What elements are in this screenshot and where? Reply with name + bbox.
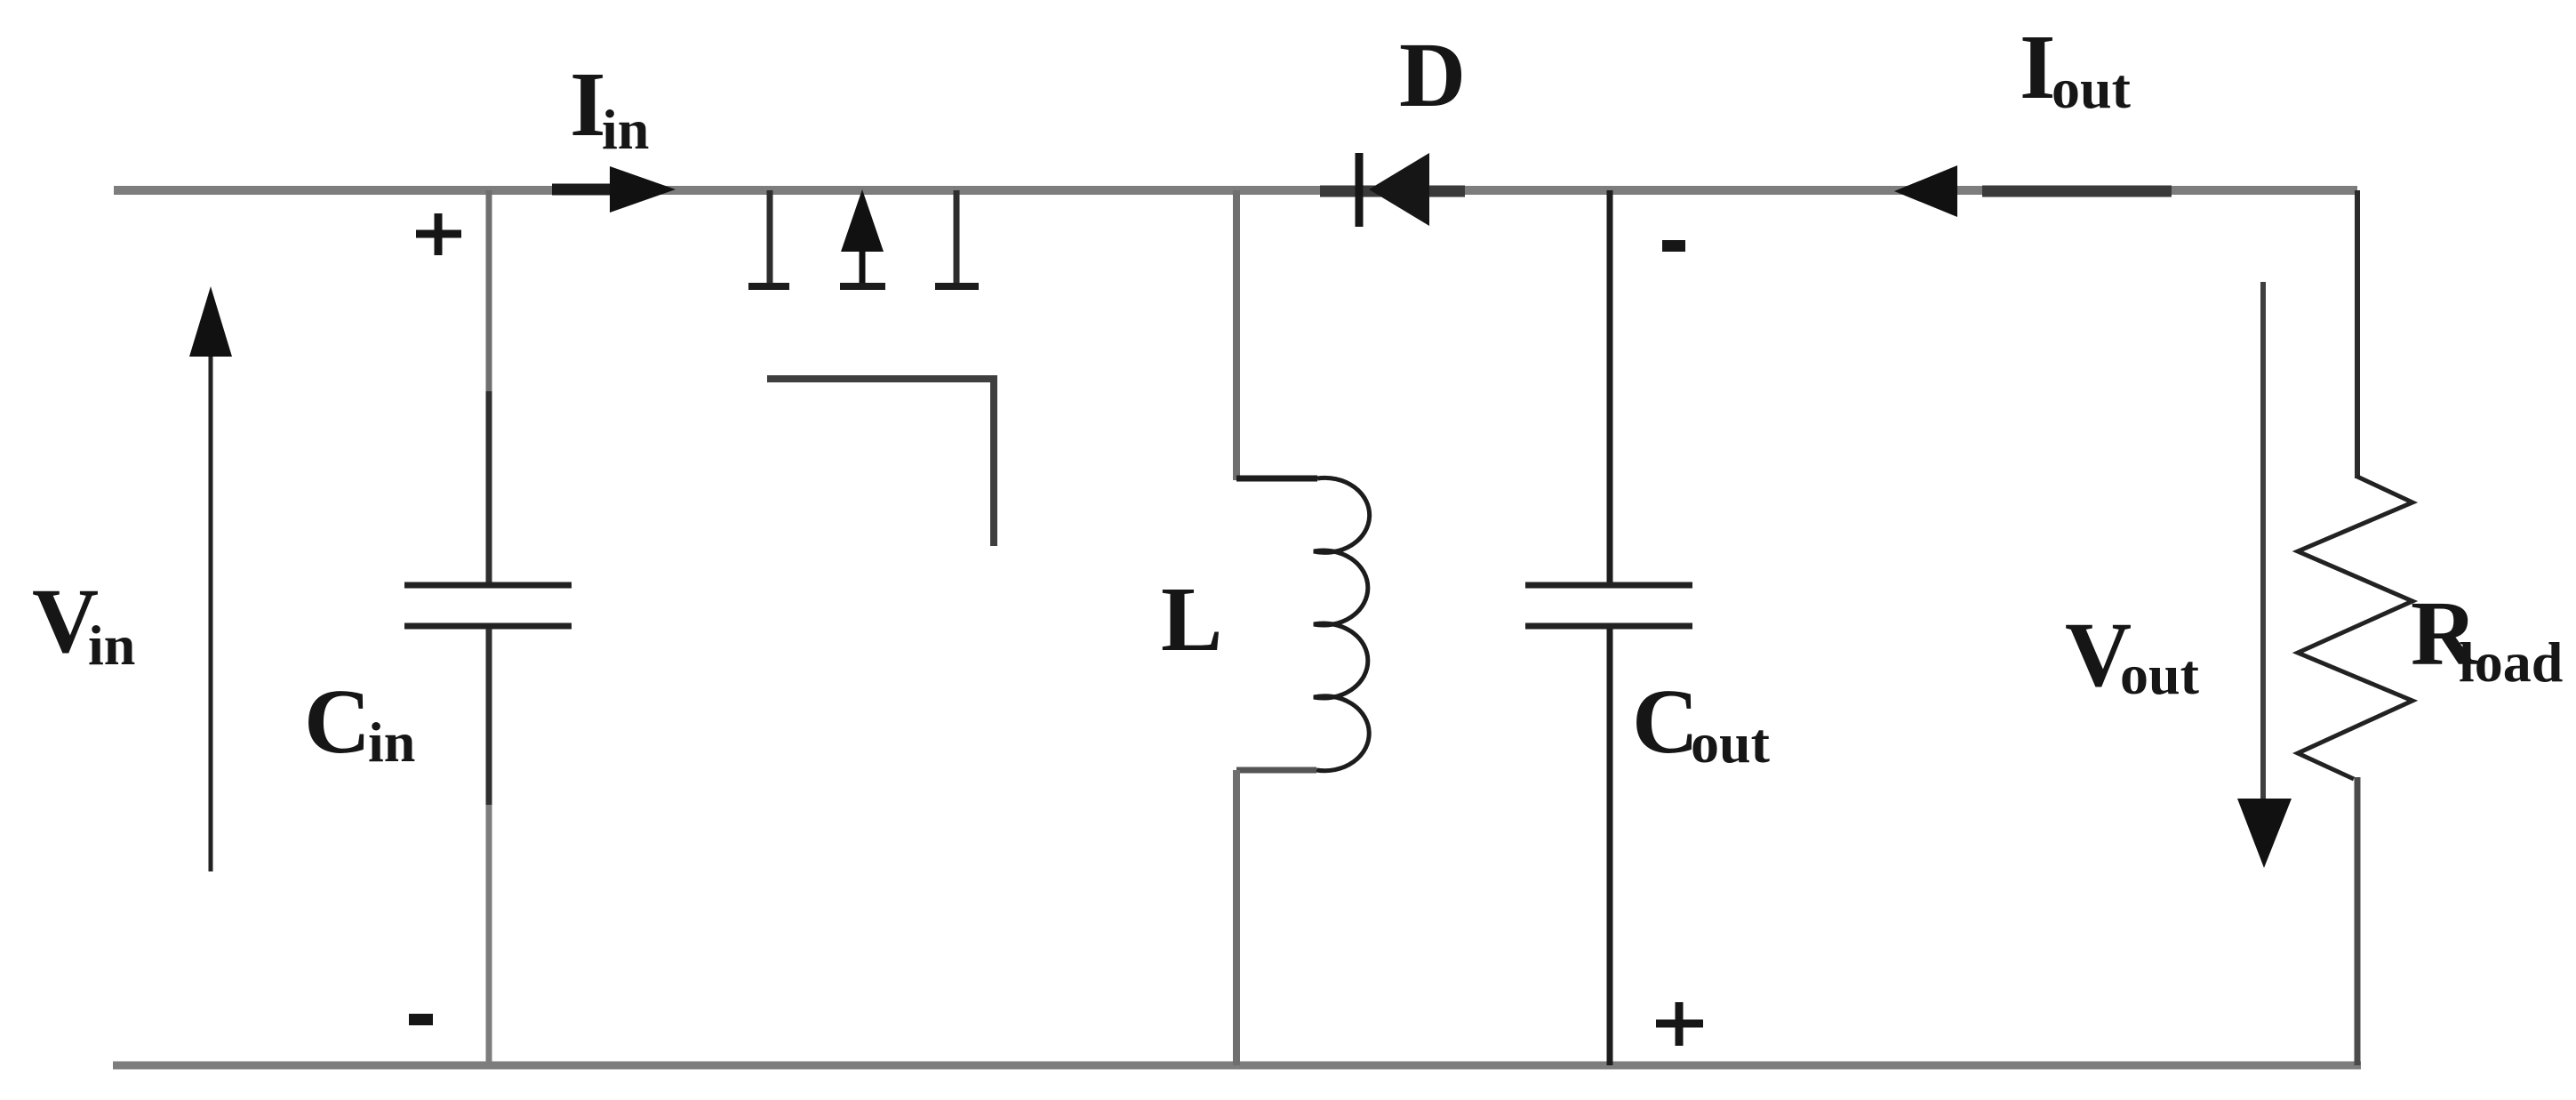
transistor Q1: right terminal: [935, 190, 979, 286]
label Cin: [304, 670, 415, 774]
svg-text:in: in: [602, 98, 649, 161]
current arrow Iin: [552, 166, 676, 213]
label Iin: [570, 53, 649, 161]
svg-text:out: out: [2052, 57, 2132, 120]
wire: switch node vertical (top rail to inductor): [1233, 190, 1240, 480]
capacitor Cin: [404, 190, 572, 1065]
svg-text:D: D: [1399, 24, 1466, 126]
annotation + (Cin top): [416, 213, 461, 255]
annotation - (Cin bottom): [409, 1014, 433, 1025]
svg-text:out: out: [2120, 643, 2200, 706]
voltage arrow Vout: [2237, 282, 2292, 868]
label Vin: [32, 570, 135, 677]
annotation - (Cout top): [1662, 240, 1685, 252]
wire: bottom rail: [113, 1062, 2361, 1070]
svg-text:C: C: [1632, 670, 1699, 773]
label Iout: [2020, 16, 2132, 120]
wire: right branch top vertical: [2355, 190, 2360, 478]
svg-text:load: load: [2459, 630, 2563, 694]
svg-text:in: in: [88, 614, 135, 677]
wire: gate lead of Q1: [767, 379, 994, 546]
svg-text:in: in: [368, 711, 415, 774]
wire: resistor bottom to bottom rail: [2355, 777, 2361, 1065]
inductor L: [1236, 478, 1370, 770]
label Rload: [2411, 582, 2563, 694]
wire: inductor bottom to bottom rail: [1233, 770, 1240, 1065]
transistor Q1: MOSFET switch, left terminal: [748, 190, 789, 286]
voltage arrow Vin: [189, 286, 232, 871]
svg-text:L: L: [1161, 568, 1222, 670]
svg-text:I: I: [2020, 16, 2055, 118]
resistor Rload: [2298, 477, 2412, 779]
annotation + (Cout bottom): [1656, 1002, 1703, 1046]
diode D: [1320, 153, 1465, 227]
svg-text:out: out: [1691, 711, 1771, 775]
current arrow Iout: [1894, 165, 2172, 217]
label Vout: [2065, 604, 2200, 706]
label Cout: [1632, 670, 1771, 775]
svg-text:C: C: [304, 670, 371, 773]
svg-text:I: I: [570, 53, 605, 156]
capacitor Cout: [1525, 190, 1692, 1065]
transistor Q1: body arrow (middle): [840, 189, 885, 286]
wire: top rail: [114, 186, 2357, 195]
